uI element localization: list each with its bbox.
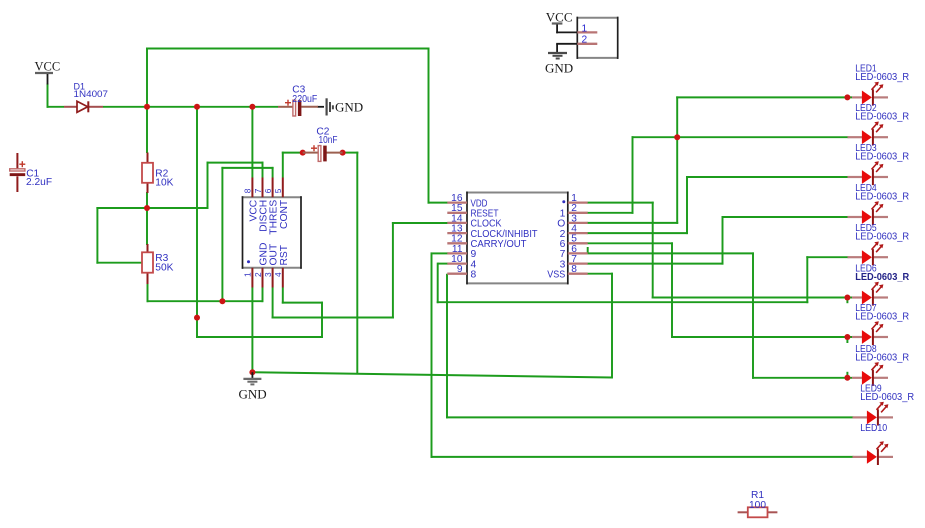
svg-text:100: 100 — [749, 500, 766, 511]
svg-text:2.2uF: 2.2uF — [26, 177, 52, 188]
svg-text:4: 4 — [273, 272, 283, 277]
svg-text:LED-0603_R: LED-0603_R — [860, 392, 914, 403]
svg-text:LED-0603_R: LED-0603_R — [855, 312, 909, 323]
svg-text:VSS: VSS — [547, 270, 565, 281]
svg-text:8: 8 — [571, 264, 577, 275]
svg-text:VCC: VCC — [546, 10, 573, 25]
svg-text:VCC: VCC — [35, 60, 61, 74]
svg-text:LED-0603_R: LED-0603_R — [855, 272, 910, 283]
svg-text:LED-0603_R: LED-0603_R — [855, 72, 909, 83]
svg-text:10nF: 10nF — [319, 135, 338, 146]
svg-text:3: 3 — [263, 272, 273, 277]
svg-text:2: 2 — [253, 272, 263, 277]
svg-text:LED10: LED10 — [860, 423, 887, 434]
svg-text:2: 2 — [582, 35, 588, 46]
svg-text:7: 7 — [253, 188, 263, 193]
svg-text:6: 6 — [263, 188, 273, 193]
svg-text:LED-0603_R: LED-0603_R — [855, 192, 909, 203]
svg-text:LED-0603_R: LED-0603_R — [855, 352, 909, 363]
svg-text:8: 8 — [243, 188, 253, 193]
svg-text:CONT: CONT — [279, 199, 290, 229]
svg-text:GND: GND — [545, 61, 573, 76]
svg-text:1: 1 — [582, 23, 588, 34]
svg-text:GND: GND — [335, 100, 363, 115]
svg-text:RST: RST — [279, 244, 290, 265]
svg-text:GND: GND — [239, 387, 267, 402]
svg-text:LED-0603_R: LED-0603_R — [855, 112, 909, 123]
svg-text:220uF: 220uF — [292, 94, 317, 105]
svg-text:10K: 10K — [155, 178, 173, 189]
svg-text:8: 8 — [471, 270, 477, 281]
svg-text:LED-0603_R: LED-0603_R — [855, 152, 909, 163]
svg-text:50K: 50K — [155, 263, 173, 274]
svg-text:5: 5 — [273, 188, 283, 193]
svg-text:1N4007: 1N4007 — [74, 89, 109, 99]
svg-text:9: 9 — [457, 264, 463, 275]
svg-text:LED-0603_R: LED-0603_R — [855, 232, 909, 243]
svg-text:1: 1 — [243, 272, 253, 277]
svg-text:CARRY/OUT: CARRY/OUT — [471, 239, 528, 250]
